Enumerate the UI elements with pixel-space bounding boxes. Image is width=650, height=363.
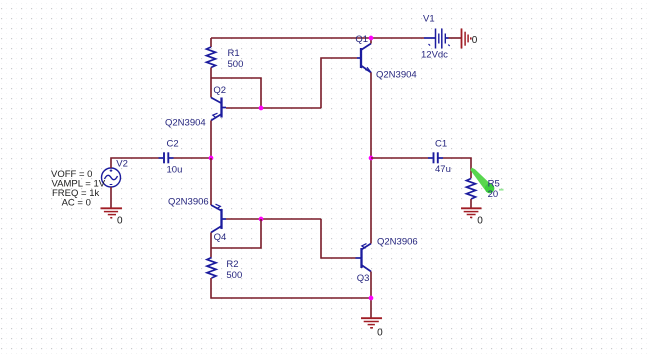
transistor Q4 [211, 204, 226, 232]
svg-text:V1: V1 [423, 14, 435, 25]
svg-text:0: 0 [117, 215, 123, 226]
svg-text:AC = 0: AC = 0 [62, 198, 91, 209]
wire Q3 collector to bottom rail and ground stem [370, 272, 372, 319]
wire V2 top to C2 [111, 158, 159, 168]
node junction Q2 base-collector [259, 106, 264, 111]
wire C1 to R5 [443, 158, 471, 178]
ground 0 at V1 (rotated) [462, 29, 471, 49]
svg-text:Q3: Q3 [357, 273, 370, 284]
svg-text:20: 20 [488, 189, 499, 200]
resistor R5 [467, 179, 476, 200]
wire riser to Q1 base [321, 58, 357, 108]
capacitor C2 [159, 152, 174, 163]
svg-text:500: 500 [226, 270, 242, 281]
svg-text:Q2N3906: Q2N3906 [168, 197, 209, 208]
svg-text:0: 0 [472, 35, 478, 46]
svg-text:0: 0 [477, 215, 483, 226]
svg-text:0: 0 [377, 328, 383, 339]
node junction Q4 base-collector [259, 217, 264, 222]
svg-text:12Vdc: 12Vdc [421, 50, 448, 61]
svg-text:Q2N3904: Q2N3904 [376, 70, 417, 81]
svg-text:47u: 47u [435, 164, 451, 175]
wire Q1 emitter down to output node [370, 73, 372, 159]
wire top rail from R1 top to V1 [211, 37, 424, 39]
ground 0 at V2 [101, 208, 123, 217]
wire R5 bottom to ground [470, 199, 472, 208]
svg-text:Q2N3906: Q2N3906 [377, 237, 418, 248]
wire input node down to Q4 emitter [210, 158, 212, 205]
wire riser to Q3 base [321, 219, 356, 258]
wire Q2 emitter down to mid rail [210, 121, 212, 159]
svg-text:Q4: Q4 [214, 232, 227, 243]
transistor Q3 [356, 244, 372, 272]
wire V2 bottom to ground [110, 187, 112, 208]
svg-text:10u: 10u [167, 164, 183, 175]
wire output node to C1 [371, 157, 428, 159]
node junction Q1 collector top rail [369, 36, 374, 41]
svg-text:Q1: Q1 [355, 34, 368, 45]
node junction input [209, 156, 214, 161]
transistor Q2 [211, 98, 226, 121]
wire R1 top lead [210, 38, 212, 47]
svg-text:R2: R2 [226, 259, 238, 270]
wire C2 to input node [174, 157, 212, 159]
wire V1 to ground [449, 37, 462, 39]
wire Q1 collector to top rail [370, 38, 372, 44]
wire Q2 base to riser [226, 107, 321, 109]
svg-text:C2: C2 [167, 139, 179, 150]
transistor Q1 [357, 44, 371, 73]
node junction output [369, 156, 374, 161]
voltage source V1 battery [424, 29, 450, 49]
svg-text:Q2N3904: Q2N3904 [165, 118, 206, 129]
ground 0 at R5 [461, 208, 482, 217]
svg-text:R1: R1 [228, 48, 240, 59]
wire Q4 base to riser [226, 218, 321, 220]
svg-text:C1: C1 [435, 139, 447, 150]
ground 0 at bottom [361, 318, 382, 328]
wire Q4 collector loop [211, 219, 261, 248]
wire R2 bottom to bottom rail [211, 278, 371, 298]
svg-text:Q2: Q2 [213, 85, 226, 96]
svg-text:500: 500 [228, 59, 244, 70]
capacitor C1 [428, 152, 443, 163]
resistor R1 [207, 47, 216, 68]
wire Q3 emitter from output node [370, 158, 372, 244]
wire Q2 collector-base loop [211, 78, 261, 108]
voltage source V2 sine [102, 168, 121, 187]
green selection marker on R5 [471, 168, 504, 194]
node junction bottom rail ground [369, 296, 374, 301]
wire R1 bottom to Q2 collector [210, 68, 212, 98]
svg-text:R5: R5 [488, 178, 500, 189]
svg-text:V2: V2 [116, 159, 128, 170]
resistor R2 [207, 258, 216, 279]
wire Q4 collector down [210, 233, 212, 258]
